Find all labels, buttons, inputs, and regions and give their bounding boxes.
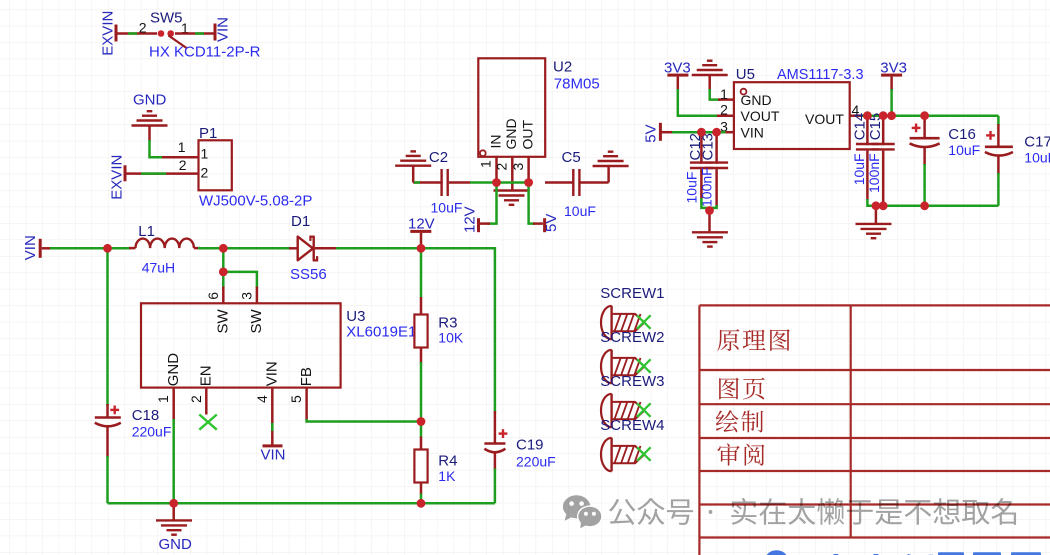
svg-text:WJ500V-5.08-2P: WJ500V-5.08-2P <box>199 193 312 210</box>
junction C12/C13 ground <box>705 206 714 215</box>
wire U3 GND to bottom rail <box>172 419 175 503</box>
wire 5V to U5 pin 3 <box>672 131 725 134</box>
net port 5V (left of U5) <box>643 123 673 143</box>
svg-text:SW: SW <box>248 308 265 333</box>
U2 pin 2 <box>494 157 513 190</box>
title block table <box>699 305 1050 555</box>
svg-text:SCREW2: SCREW2 <box>600 329 664 346</box>
capacitor C5 10uF <box>545 149 609 219</box>
wire U2 pin3 down to 5V port <box>529 183 535 224</box>
watermark text 公众号·实在太懒于是不想取名 <box>609 498 1016 525</box>
converter U3 XL6019E1 <box>141 303 416 387</box>
wire SW5 pin 1 to VIN <box>175 32 214 35</box>
mounting screw SCREW3 <box>600 373 664 427</box>
U3 pin 4 VIN lead <box>254 388 273 445</box>
U3 pin 5 FB lead <box>288 388 307 421</box>
svg-text:10uF: 10uF <box>1024 150 1050 166</box>
svg-text:C13: C13 <box>700 133 717 161</box>
svg-text:C17: C17 <box>1024 134 1050 151</box>
regulator U5 AMS1117-3.3 <box>717 66 864 149</box>
svg-text:10uF: 10uF <box>564 203 596 219</box>
svg-text:100nF: 100nF <box>866 153 882 193</box>
junction 3V3 tap <box>887 111 896 120</box>
junction SW node <box>219 244 228 253</box>
wire FB to divider node <box>307 419 421 422</box>
svg-text:1: 1 <box>201 145 209 161</box>
svg-text:U3: U3 <box>346 308 365 325</box>
net port EXVIN (to P1) <box>108 155 141 200</box>
svg-text:C5: C5 <box>562 149 581 166</box>
junction SW branch <box>219 268 228 277</box>
svg-text:C18: C18 <box>132 407 160 424</box>
inductor L1 47uH <box>129 223 200 276</box>
junction C16 tap <box>920 111 929 120</box>
svg-text:10uF: 10uF <box>948 142 980 158</box>
svg-text:EXVIN: EXVIN <box>99 11 116 56</box>
U2 pin 1 <box>478 157 497 183</box>
title row label 原理图 (schematic) <box>717 329 790 351</box>
capacitor C2 10uF <box>413 149 470 216</box>
ground symbol bottom <box>156 503 192 553</box>
svg-text:10uF: 10uF <box>431 200 463 216</box>
junction ground rail right <box>417 499 426 508</box>
svg-text:2: 2 <box>201 165 209 181</box>
capacitor C13 100nF <box>699 132 729 207</box>
ground symbol under U2 pin 2 <box>494 191 530 205</box>
junction ground rail left <box>169 499 178 508</box>
svg-text:2: 2 <box>494 163 510 171</box>
svg-text:C2: C2 <box>429 149 448 166</box>
svg-text:1: 1 <box>478 160 494 168</box>
junction 12V / R3 node <box>417 244 426 253</box>
net port 5V (under U2) <box>533 214 560 233</box>
wire 3V3 to U5 pin 2 <box>678 89 718 116</box>
junction ground stem <box>872 201 881 210</box>
svg-text:3: 3 <box>510 163 526 171</box>
svg-text:C19: C19 <box>516 437 544 454</box>
svg-text:VOUT: VOUT <box>741 108 780 124</box>
svg-text:R4: R4 <box>438 453 457 470</box>
svg-text:SCREW3: SCREW3 <box>600 373 664 390</box>
svg-text:5V: 5V <box>643 124 660 142</box>
junction C18 branch <box>103 244 112 253</box>
U3 pin 1 GND lead <box>155 388 174 421</box>
bottom ground rail <box>108 502 495 505</box>
svg-text:GND: GND <box>165 353 182 387</box>
wire U5 pin 4 VOUT rail <box>862 116 998 125</box>
svg-text:IN: IN <box>487 135 503 149</box>
wire GND to P1 pin 1 <box>150 140 167 157</box>
ground symbol GND at P1 <box>132 92 168 142</box>
ground symbol right of C5 <box>593 152 629 183</box>
capacitor C14 10uF <box>851 113 879 200</box>
net port 3V3 (left) <box>664 60 691 91</box>
svg-text:2: 2 <box>139 20 147 36</box>
svg-text:U5: U5 <box>736 66 755 83</box>
svg-text:XL6019E1: XL6019E1 <box>346 324 416 341</box>
wire C14 to ground rail <box>867 199 998 206</box>
resistor R4 1K <box>414 422 457 504</box>
switch SW5 <box>139 10 261 61</box>
net port VIN (left edge) <box>22 235 52 260</box>
ground symbol under C12 C13 <box>692 210 728 247</box>
resistor R3 10K <box>414 248 463 421</box>
svg-text:SW: SW <box>215 308 232 333</box>
svg-text:SS56: SS56 <box>290 266 327 283</box>
ground symbol under VOUT caps <box>856 206 892 238</box>
wire D1 to 12V node <box>336 247 421 250</box>
svg-text:VIN: VIN <box>261 447 286 464</box>
junction C15 bottom <box>879 201 888 210</box>
svg-text:10uF: 10uF <box>851 153 867 185</box>
diode D1 SS56 schottky <box>289 213 338 283</box>
wire EXVIN to SW5 pin 2 <box>118 32 158 35</box>
U3 pin 3 lead <box>238 287 257 304</box>
capacitor C12 10uF <box>684 132 713 203</box>
wire GND to U5 pin 1 <box>710 75 721 100</box>
capacitor C16 10uF polarized <box>910 116 981 206</box>
junction at U2 pin 3 <box>524 178 533 187</box>
svg-text:5V: 5V <box>543 214 560 232</box>
svg-text:GND: GND <box>741 92 772 108</box>
svg-text:12V: 12V <box>408 215 435 232</box>
wire SW node to U3 SW pins <box>223 248 257 288</box>
svg-text:220uF: 220uF <box>132 424 172 440</box>
svg-text:2: 2 <box>188 395 204 403</box>
net port VIN (switch output) <box>214 17 232 42</box>
capacitor C18 220uF polarized <box>95 404 172 458</box>
title row label 绘制 (drawn by) <box>716 410 763 432</box>
svg-text:AMS1117-3.3: AMS1117-3.3 <box>777 67 864 83</box>
svg-text:SW5: SW5 <box>150 10 183 27</box>
svg-text:VIN: VIN <box>741 125 764 141</box>
svg-text:4: 4 <box>254 395 270 403</box>
svg-text:220uF: 220uF <box>516 454 556 470</box>
svg-text:VOUT: VOUT <box>805 111 844 127</box>
svg-text:1K: 1K <box>438 468 456 484</box>
svg-text:1: 1 <box>178 139 186 155</box>
net port 3V3 (right) <box>880 60 907 91</box>
svg-text:EXVIN: EXVIN <box>108 155 125 200</box>
wire 12V node to C19 <box>421 248 495 412</box>
svg-text:GND: GND <box>159 536 193 553</box>
svg-text:VIN: VIN <box>264 361 281 386</box>
net port VIN (under U3) <box>261 444 286 463</box>
capacitor C19 220uF polarized <box>484 411 555 503</box>
svg-text:78M05: 78M05 <box>554 76 600 93</box>
wire C2 to U2 pin 1 to pin 3 <box>470 181 529 184</box>
title row label 审阅 (reviewed by) <box>717 443 764 465</box>
svg-text:GND: GND <box>503 118 519 149</box>
wire L1 to D1 <box>198 247 291 250</box>
junction at U2 pin 1 <box>492 178 501 187</box>
watermark WeChat icon <box>563 495 590 521</box>
wire VIN to L1 <box>50 247 131 250</box>
connector P1 <box>141 125 313 210</box>
mounting screw SCREW1 <box>600 285 664 340</box>
wire U2 pin1 down to 12V port <box>487 183 497 224</box>
svg-text:3: 3 <box>238 292 254 300</box>
svg-text:SCREW4: SCREW4 <box>600 417 664 434</box>
capacitor C15 100nF <box>866 113 895 206</box>
svg-text:5: 5 <box>288 395 304 403</box>
svg-text:OUT: OUT <box>519 120 535 150</box>
svg-text:6: 6 <box>205 292 221 300</box>
regulator U2 78M05 <box>478 58 599 157</box>
wire EXVIN to P1 pin 2 <box>141 172 166 175</box>
svg-text:HX KCD11-2P-R: HX KCD11-2P-R <box>149 44 261 61</box>
junction C12 tap <box>697 128 706 137</box>
svg-text:2: 2 <box>720 102 728 118</box>
svg-text:GND: GND <box>133 92 167 109</box>
net port 12V (under U2) <box>461 206 490 233</box>
capacitor C17 10uF polarized <box>985 124 1050 206</box>
svg-text:SCREW1: SCREW1 <box>600 285 664 302</box>
wire 3V3 down to VOUT rail <box>890 89 893 116</box>
svg-text:U2: U2 <box>553 59 572 76</box>
mounting screw SCREW2 <box>600 329 664 383</box>
junction C16 bottom <box>920 201 929 210</box>
svg-text:10K: 10K <box>438 330 464 346</box>
svg-text:VIN: VIN <box>214 17 231 42</box>
svg-text:12V: 12V <box>461 206 478 233</box>
JLC EDA logo (cut off at bottom) <box>764 550 1041 555</box>
svg-text:L1: L1 <box>138 223 155 240</box>
mounting screw SCREW4 <box>600 417 664 471</box>
junction C15 tap <box>879 111 888 120</box>
net port EXVIN (switch input) <box>99 11 117 56</box>
svg-text:2: 2 <box>179 157 187 173</box>
net port 12V (above R3) <box>408 215 435 248</box>
svg-text:10uF: 10uF <box>684 172 700 204</box>
svg-text:1: 1 <box>155 395 171 403</box>
title row label 图页 (sheet) <box>719 378 765 400</box>
ground symbol above U5 pin 1 <box>692 61 728 75</box>
wire C12 C13 bottoms <box>701 198 716 208</box>
svg-text:C16: C16 <box>948 126 976 143</box>
ground symbol left of C2 <box>395 151 431 182</box>
U2 pin 3 <box>510 157 529 183</box>
junction feedback node <box>417 417 426 426</box>
svg-text:1: 1 <box>720 86 728 102</box>
svg-text:FB: FB <box>298 367 315 386</box>
svg-text:47uH: 47uH <box>142 260 175 276</box>
junction C14 tap <box>863 111 872 120</box>
U3 pin 6 lead <box>205 287 223 304</box>
junction C13 tap <box>712 128 721 137</box>
U3 pin 2 EN lead with no-connect <box>188 388 217 430</box>
wire down to C18 <box>106 248 109 406</box>
svg-text:D1: D1 <box>291 213 310 230</box>
wire C18 to bottom rail <box>106 456 109 503</box>
svg-text:EN: EN <box>198 365 215 386</box>
svg-text:VIN: VIN <box>22 235 39 260</box>
